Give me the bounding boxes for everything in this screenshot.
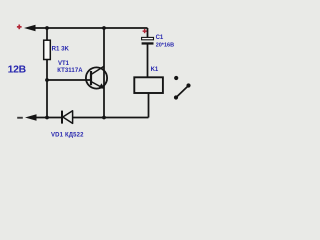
node junction bottom rail left [45,116,49,120]
node junction collector/top rail [102,26,106,30]
wire top rail arrowhead [24,25,36,32]
svg-text:K1: K1 [151,67,159,73]
svg-text:C1: C1 [156,35,164,41]
wire bottom rail arrowhead [25,114,37,121]
relay contact K1.1 top terminal [174,76,178,80]
transistor VT1 circle [86,67,107,88]
node - (negative supply terminal mark) [17,117,23,119]
node junction R1 top [45,26,49,30]
wire bottom rail right of diode [73,117,149,119]
relay contact K1.1 bottom terminal [174,95,178,99]
node junction emitter/bottom rail [102,116,106,120]
svg-text:VD1 КД522: VD1 КД522 [51,132,84,138]
wire bottom rail left of diode [35,117,62,119]
wire cap top lead [147,28,149,38]
capacitor C1 bottom plate [142,42,154,44]
svg-text:VT1: VT1 [58,61,70,67]
transistor VT1 collector diagonal [91,66,104,74]
diode VD1 triangle [63,111,73,124]
capacitor C1 top plate (hollow) [142,37,154,39]
wire relay bottom to bottom rail [148,93,150,118]
transistor VT1 base bar [90,71,92,85]
svg-text:20*16В: 20*16В [156,42,174,48]
relay K1 coil [134,77,163,93]
wire R1 bottom to base node and down to bottom rail [46,59,48,118]
transistor VT1 emitter diagonal with arrow [91,82,102,88]
node + (positive supply terminal mark) [17,25,22,30]
capacitor C1 plus mark [143,29,147,33]
resistor R1 [44,40,51,59]
svg-text:КТ3117А: КТ3117А [57,68,83,74]
svg-text:R1 3K: R1 3K [52,46,70,53]
wire R1 top lead [46,28,48,41]
wire cap bottom to relay top [147,45,149,78]
svg-text:12В: 12В [8,65,27,76]
relay contact K1.1 lever [176,86,188,97]
node junction at R1/base [45,78,49,82]
diode VD1 cathode bar [61,111,63,124]
wire base lead [47,79,91,81]
wire top rail [34,27,148,29]
wire collector/emitter vertical [103,28,105,118]
